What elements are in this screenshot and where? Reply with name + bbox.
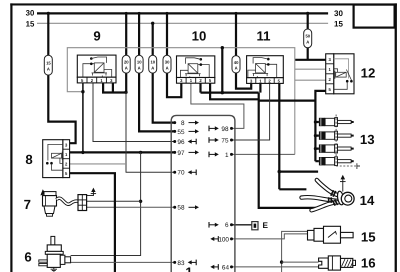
wire relay10 pin c across to relay11 pin b corner [201, 83, 259, 93]
wire ECU pin64 to comp16 lower [232, 266, 319, 268]
node glow1 [314, 120, 317, 123]
page frame left border [10, 3, 12, 272]
node glow2 [314, 134, 317, 137]
svg-text:15: 15 [26, 20, 35, 29]
svg-text:A: A [125, 65, 128, 70]
pin 64 [210, 264, 233, 271]
wire relay9 pin2 to ECU pin96 [93, 83, 175, 142]
node harness/drop [221, 46, 224, 49]
shield arrow above 7 [87, 188, 97, 196]
svg-text:30: 30 [26, 9, 35, 18]
svg-text:70: 70 [177, 170, 185, 177]
node bus30/F2 [125, 12, 128, 15]
wire F7 to relay12 pin3 and left branch [295, 48, 326, 60]
wire F5 to relay10 pin a [167, 73, 181, 97]
fuse F5 30A [163, 55, 171, 73]
gray harness line relaybox top [67, 48, 294, 92]
node bus30/F1 [47, 12, 50, 15]
fuse F5 30A drop from bus30 [166, 13, 168, 55]
node pin97 bus B [139, 151, 142, 154]
wire ECU pin6 to E connector [232, 224, 252, 226]
svg-text:A: A [166, 65, 169, 70]
svg-text:98: 98 [221, 126, 229, 133]
wire tap to comp16 upper [282, 261, 319, 263]
pin 100 [210, 236, 233, 243]
svg-text:58: 58 [177, 205, 185, 212]
svg-text:64: 64 [222, 264, 230, 271]
component 7 cable [57, 198, 79, 204]
gray line down to ECU pin1 with branches to relay12 pins 1,2 [295, 60, 326, 155]
node relay9 pin5 / box edge [81, 90, 84, 93]
node bus30/F7 [306, 12, 309, 15]
svg-text:50: 50 [305, 34, 310, 39]
svg-text:75: 75 [221, 137, 229, 144]
svg-text:7: 7 [24, 197, 31, 212]
node comp7 tap [139, 200, 142, 203]
node bus30/F6 [235, 12, 238, 15]
wire thick drop from harness line to glow junction [221, 48, 223, 93]
pin 97 [173, 150, 199, 157]
fuse F3 10A drop from bus30 [138, 13, 140, 55]
wire comp7 lower to ECU pin58 [87, 206, 175, 208]
node glow3 [314, 147, 317, 150]
svg-text:16: 16 [361, 256, 376, 271]
wire relay8 pin5 down off page [70, 173, 115, 272]
wire relay8 pin1 to ECU pin97 [70, 151, 175, 153]
fuse F1 15A drop from bus30 [47, 13, 49, 55]
sensor 16 [319, 256, 356, 270]
node pin97 bus A [81, 151, 84, 154]
svg-text:9: 9 [93, 29, 100, 44]
pin 1 [209, 152, 233, 159]
fuse F6 40A drop from bus30 [235, 13, 237, 55]
svg-text:55: 55 [177, 129, 185, 136]
pin 83 [173, 260, 196, 267]
svg-text:6: 6 [225, 222, 229, 229]
relay 12 [326, 54, 354, 94]
svg-text:A: A [235, 65, 238, 70]
glow plug G1 [319, 118, 354, 127]
svg-text:20: 20 [124, 60, 129, 65]
svg-text:E: E [263, 221, 269, 230]
node bus15/F4 [151, 22, 154, 25]
svg-text:A: A [306, 40, 309, 45]
sensor 15 [308, 226, 354, 243]
fuse F2 20A drop from bus30 [125, 13, 127, 55]
wire relay11 pin c to ECU pin75 [232, 83, 270, 140]
svg-text:15: 15 [46, 60, 51, 65]
node F2 junction [124, 91, 127, 94]
component 6 valve [39, 236, 71, 272]
wire F2 thin continuation to pin70 path [126, 92, 175, 172]
svg-text:10: 10 [192, 29, 207, 44]
pin 6 [209, 222, 233, 229]
dashed gang line 13 [336, 115, 357, 167]
page frame top border [10, 3, 397, 5]
wire relay8 pin2 gray [70, 163, 126, 165]
pin 96 [173, 139, 196, 146]
fuse F4 10A [149, 55, 157, 73]
svg-text:15: 15 [361, 229, 376, 244]
pin 98 [209, 126, 233, 133]
wire drop to injection pump and comp6 [71, 152, 141, 255]
node glow junction [221, 91, 225, 95]
fuse F2 20A [122, 55, 130, 73]
svg-text:40: 40 [234, 60, 239, 65]
svg-text:1: 1 [225, 152, 229, 159]
wire comp6 lower to ECU pin83 [71, 261, 175, 263]
glowplug bus stubs [315, 122, 319, 161]
wire branch to glowplug bus [259, 99, 316, 101]
wire ECU pin100 to comp15 [232, 234, 308, 239]
svg-text:97: 97 [177, 150, 185, 157]
wire F3 to ECU pin55 [139, 73, 175, 131]
component 7 solenoid [40, 189, 56, 216]
pin 70 [173, 170, 196, 177]
svg-text:83: 83 [177, 260, 185, 267]
svg-text:30: 30 [165, 60, 170, 65]
svg-text:96: 96 [177, 139, 185, 146]
wire relay10 pin d lower branch [210, 83, 259, 99]
fuse F3 10A [135, 55, 143, 73]
svg-text:13: 13 [360, 132, 375, 147]
svg-text:A: A [151, 65, 154, 70]
glow plug G2 [319, 131, 354, 140]
node bus30/F5 [166, 12, 169, 15]
fuse F6 40A [232, 56, 240, 73]
fuse F7 50A drop from bus30 [307, 13, 309, 29]
wire F4 to ECU pin8 [153, 73, 175, 123]
relay 11 [247, 56, 284, 84]
connector E [252, 221, 269, 230]
glow plug G3 [319, 144, 354, 153]
svg-text:14: 14 [360, 193, 375, 208]
relay 10 [177, 56, 215, 83]
wire comp15 upper / ground bus [282, 231, 308, 272]
svg-text:10: 10 [150, 60, 155, 65]
svg-text:6: 6 [24, 250, 31, 265]
dashed end mark [357, 163, 360, 169]
starter 14 cables [302, 180, 342, 210]
starter 14 hub [337, 191, 355, 206]
page frame right border [395, 3, 397, 272]
wire relay10 pin b to ECU pin98 [191, 83, 244, 128]
svg-text:30: 30 [334, 9, 343, 18]
corner stamp box top-right [354, 5, 395, 28]
svg-text:12: 12 [361, 66, 376, 81]
svg-text:100: 100 [218, 236, 229, 243]
svg-text:A: A [138, 65, 141, 70]
pin 75 [209, 137, 233, 144]
fuse F1 15A [44, 55, 52, 75]
svg-text:11: 11 [257, 29, 271, 44]
wire relay12 pin5 to glowplug bus [315, 91, 325, 161]
relay 9 [77, 55, 116, 83]
svg-text:8: 8 [181, 120, 185, 127]
svg-text:10: 10 [137, 60, 142, 65]
pin 8 [173, 120, 199, 127]
wire relay11 pin d to starter top/mid cables [279, 83, 318, 190]
glow plug G4 [319, 157, 354, 166]
fuse F7 50A [304, 29, 312, 48]
svg-text:1: 1 [185, 265, 192, 272]
component 7 connector block [78, 195, 87, 211]
pin 55 [173, 129, 199, 136]
wire bus 15 [37, 22, 328, 24]
svg-text:8: 8 [25, 152, 32, 167]
wire ECU pin1 to gray vertical [232, 153, 295, 155]
bolt symbol above 14 [340, 175, 346, 192]
svg-text:A: A [47, 66, 50, 71]
wire F1 to relay8 pin3 [48, 75, 75, 143]
wire relay9 pin5 down [82, 83, 84, 153]
wire F2 down to junction [125, 73, 127, 92]
node bus30/F3 [138, 12, 141, 15]
wire F6 to relay11 pin a [236, 73, 251, 89]
relay 8 [43, 140, 70, 178]
ECU control unit box 1 [171, 115, 235, 272]
wire bus 30 [37, 12, 328, 14]
wire relay9 pins1+3 U to F2 junction [103, 83, 126, 93]
fuse F4 10A drop from bus15 [152, 23, 154, 55]
node comp16 tap [280, 260, 283, 263]
node starter feed [278, 170, 282, 174]
svg-text:15: 15 [334, 20, 343, 29]
wire relay11 pin b down [259, 83, 261, 93]
wire main feed down to starter cable bottom [259, 93, 316, 208]
wire comp7 upper to tap [87, 200, 141, 202]
pin 58 [173, 205, 199, 212]
